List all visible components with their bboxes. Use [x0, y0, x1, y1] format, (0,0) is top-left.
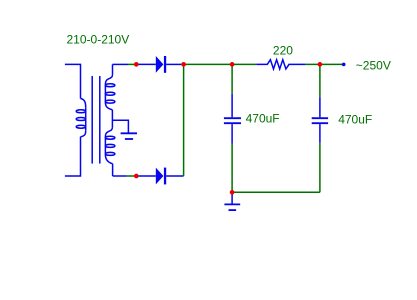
transformer T1 secondary lower winding spine [104, 137, 106, 155]
junction dot at C1 top [230, 62, 235, 67]
transformer T1 secondary lower winding loop 3 [105, 152, 115, 155]
diode D2 cathode lead [166, 175, 183, 177]
transformer T1 secondary upper winding spine [104, 84, 106, 102]
transformer T1 primary winding loop 1 [76, 110, 85, 113]
capacitor C1 plate 1 [224, 117, 241, 119]
net wire: top rail to C2 [319, 64, 321, 97]
capacitor C1 plate 2 [224, 122, 241, 124]
transformer T1 secondary bottom lead [112, 164, 114, 176]
junction dot at C2 top [318, 62, 323, 67]
capacitor C2 top lead [319, 97, 321, 117]
transformer T1 secondary upper winding loop 2 [105, 92, 115, 95]
junction dot at ground node [230, 190, 235, 195]
transformer T1 primary bottom lead [65, 137, 81, 176]
svg-text:470uF: 470uF [246, 112, 280, 126]
ground symbol stem [231, 192, 233, 203]
top rail green net stub [128, 63, 136, 65]
output terminal dot [342, 63, 346, 67]
diode D2 triangle [156, 168, 164, 185]
bottom rail green net stub [127, 175, 137, 177]
net wire: top rail to C1 [231, 64, 233, 93]
transformer T1 secondary lower winding loop 2 [105, 144, 115, 147]
bottom rail blue wire from T1 [113, 175, 127, 177]
ground symbol bar 1 [224, 203, 240, 205]
svg-text:470uF: 470uF [338, 112, 372, 126]
net wire: C2 bottom to ground rail [319, 143, 321, 193]
svg-text:210-0-210V: 210-0-210V [67, 33, 130, 47]
transformer T1 secondary lower winding entry arc [105, 127, 112, 137]
diode D1 anode lead [136, 63, 156, 65]
transformer T1 primary top lead [65, 64, 81, 98]
transformer T1 secondary lower winding loop 1 [105, 136, 115, 139]
transformer T1 primary winding spine [85, 107, 87, 130]
diode D1 cathode lead [166, 63, 181, 65]
center tap wire [112, 120, 128, 132]
center tap ground bar 2 [125, 138, 133, 140]
ground symbol bar 2 [229, 209, 237, 211]
capacitor C2 plate 1 [312, 117, 328, 119]
diode D2 cathode bar [164, 168, 166, 185]
transformer T1 secondary upper winding exit arc [105, 102, 112, 109]
net wire: ground junction to C2 bottom [232, 191, 320, 193]
net wire: D1 cathode node to resistor R1 [181, 63, 256, 65]
diode D2 anode lead [136, 175, 156, 177]
top rail blue wire from T1 to node [113, 63, 129, 65]
capacitor C1 top lead [231, 94, 233, 118]
transformer T1 secondary top lead [112, 64, 114, 74]
transformer T1 secondary upper winding entry arc [105, 75, 112, 85]
net wire: D2 cathode up to top rail [183, 64, 185, 176]
capacitor C2 bottom lead [319, 124, 321, 143]
net wire: C1 to ground junction [231, 144, 233, 193]
capacitor C1 bottom lead [231, 124, 233, 143]
transformer T1 core line 1 [91, 76, 93, 164]
junction dot at D1/D2 cathode node [181, 62, 186, 67]
junction dot at D1 anode [134, 62, 139, 67]
resistor R1 (220 ohm) leads and zigzag [256, 60, 305, 69]
center tap ground bar 1 [121, 132, 137, 134]
transformer T1 secondary middle vertical (center tap node) [111, 110, 113, 128]
svg-text:~250V: ~250V [356, 59, 391, 73]
transformer T1 secondary upper winding loop 3 [105, 100, 115, 103]
svg-text:220: 220 [273, 43, 293, 57]
transformer T1 secondary upper winding loop 1 [105, 84, 115, 87]
capacitor C2 plate 2 [312, 122, 328, 124]
transformer T1 primary winding loop 3 [76, 125, 85, 128]
diode D1 cathode bar [164, 56, 166, 73]
transformer T1 primary winding loop 2 [76, 118, 85, 121]
diode D1 triangle [156, 56, 164, 73]
net wire: R1 to output terminal [305, 63, 342, 65]
junction dot at D2 anode [134, 174, 139, 179]
transformer T1 secondary lower winding exit arc [105, 155, 112, 164]
transformer T1 primary winding exit arc [81, 131, 86, 137]
transformer T1 primary winding entry arc [81, 99, 86, 108]
transformer T1 core line 2 [99, 76, 101, 164]
